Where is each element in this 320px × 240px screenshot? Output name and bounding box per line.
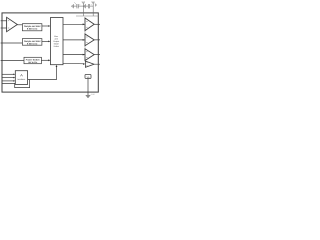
arrow out2 xyxy=(83,39,85,41)
arrow CS xyxy=(13,80,15,82)
pin wire CS xyxy=(2,80,14,82)
pin stub pin2 xyxy=(92,3,94,16)
wire U2 out2 xyxy=(63,39,85,41)
wire supply rail top right xyxy=(76,15,98,17)
wire C2 to pin xyxy=(90,5,94,7)
wire A5 out xyxy=(94,63,100,65)
capacitor C1 xyxy=(77,4,78,8)
svg-text:Ref to Pin: Ref to Pin xyxy=(28,61,38,64)
label A5 marks xyxy=(86,62,87,64)
wire U2 out4 xyxy=(63,62,85,65)
svg-text:Sample and Hold: Sample and Hold xyxy=(24,25,41,28)
wire A1 out xyxy=(17,24,22,26)
svg-text:Interface: Interface xyxy=(18,78,27,81)
wire B1 to mux xyxy=(42,25,49,27)
tick pin2 xyxy=(92,2,94,4)
mux block U2 xyxy=(51,18,64,65)
svg-text:Select: Select xyxy=(53,45,59,48)
wire A2 out xyxy=(94,23,100,25)
ground G2 xyxy=(84,4,86,8)
pin wire row4 xyxy=(1,60,24,62)
pin wire row3 xyxy=(1,42,23,44)
svg-text:Power Switch: Power Switch xyxy=(26,58,41,61)
IC boundary U1 xyxy=(2,13,98,92)
register box B2 xyxy=(22,39,42,46)
pin wire IN+ xyxy=(1,20,7,22)
svg-text:8-Bit DAC: 8-Bit DAC xyxy=(27,28,38,31)
label A1 plus xyxy=(8,20,9,22)
register box B1 xyxy=(22,24,42,31)
label A2 marks xyxy=(86,20,87,22)
ground G1 xyxy=(72,4,74,8)
wire bypass lower xyxy=(2,80,30,88)
leader C1 xyxy=(74,2,76,4)
wire B4 ground stem xyxy=(87,79,89,96)
svg-text:Sample and Hold: Sample and Hold xyxy=(24,40,41,43)
tick pin2b xyxy=(95,4,97,7)
wire U2 out3 xyxy=(63,54,85,56)
arrow B2 xyxy=(48,41,50,43)
svg-text:8-Bit DAC: 8-Bit DAC xyxy=(27,43,38,46)
label A3 marks xyxy=(86,36,87,38)
wire A4 out xyxy=(94,54,100,56)
wire U3 out to U2 xyxy=(28,66,57,80)
register box B3 xyxy=(24,57,41,63)
bias box B4 xyxy=(85,75,91,79)
arrow U3 to U2 xyxy=(56,65,58,67)
wire A3 out xyxy=(94,39,100,41)
buffer A2 xyxy=(85,18,94,31)
ground G3 xyxy=(86,95,91,97)
wire C1 to ground xyxy=(73,5,77,7)
arrow SCK xyxy=(13,77,15,79)
arrow B3 xyxy=(48,59,50,61)
pin wire SCK xyxy=(2,77,14,79)
wire C1 to pin xyxy=(78,5,83,7)
tick pin1 xyxy=(82,2,84,4)
label U3 symbol xyxy=(21,74,23,76)
serial interface U3 xyxy=(15,71,27,85)
label A1 minus xyxy=(8,27,9,29)
wire B2 to mux xyxy=(42,40,49,42)
capacitor C2 xyxy=(88,4,89,8)
arrow out4 xyxy=(83,63,85,65)
tick pin2c xyxy=(96,4,98,5)
wire buffer rail seg1 xyxy=(84,31,86,34)
arrow out3 xyxy=(83,54,85,56)
wire buffer rail seg2 xyxy=(84,46,86,49)
svg-text:GND: GND xyxy=(91,93,96,96)
buffer A4 xyxy=(85,49,94,61)
wire C2 to ground xyxy=(86,5,89,7)
buffer A5 xyxy=(85,61,94,67)
buffer A3 xyxy=(85,34,94,46)
pin stub VDD pin1 xyxy=(82,3,84,16)
op-amp A1 xyxy=(7,17,18,31)
pin wire IN- xyxy=(1,27,7,29)
arrow B1 xyxy=(48,25,50,27)
arrow out1 xyxy=(83,23,85,25)
label A4 marks xyxy=(86,51,87,53)
arrow SDI xyxy=(13,74,15,76)
wire U2 out1 xyxy=(63,23,85,25)
wire B3 to mux xyxy=(41,59,49,61)
pin wire SDI xyxy=(2,73,14,75)
